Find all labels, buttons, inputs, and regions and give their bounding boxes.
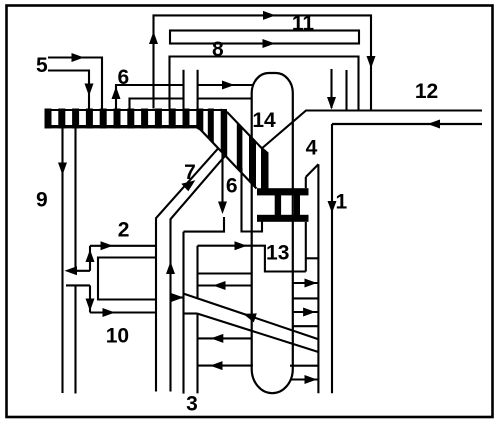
vessel 14 capsule — [252, 73, 293, 393]
stub pipe with down arrow — [330, 69, 332, 108]
duct 6 upper line right part — [198, 84, 253, 86]
zigzag left vertical lower — [196, 314, 198, 394]
loop 8 rectangle — [170, 31, 359, 44]
svg-text:14: 14 — [252, 109, 276, 132]
zigzag line y365.6 with left arrow — [198, 365, 253, 367]
arrow down on pipe 9 — [58, 163, 67, 176]
svg-text:10: 10 — [106, 325, 129, 348]
arrow on line 11 right — [263, 11, 276, 20]
svg-text:3: 3 — [186, 393, 198, 416]
grate band top rail — [45, 109, 228, 111]
grate 13 connector right — [294, 195, 300, 215]
jog lower — [184, 312, 198, 314]
wire 12 lower line — [332, 123, 482, 125]
pipe 1 vertical — [331, 124, 333, 393]
zigzag left vertical upper — [196, 246, 198, 299]
stub pipe open top near 12 — [345, 70, 347, 111]
riser channel right line — [182, 232, 184, 394]
wire duct to stub: line y56.5 — [170, 57, 359, 111]
arrow down on pipe 5 drop — [85, 84, 94, 97]
svg-text:7: 7 — [184, 161, 196, 184]
zigzag line y285.5 with left arrow — [198, 284, 252, 286]
duct 7 right diagonal — [171, 156, 226, 392]
arrow up on riser to 11 — [149, 32, 158, 45]
chute 4 right wall — [317, 164, 319, 393]
arrow right on pipe 5 — [72, 53, 85, 62]
wire 11 top line — [154, 15, 372, 110]
svg-text:9: 9 — [36, 189, 48, 212]
svg-text:13: 13 — [266, 242, 289, 265]
right stub y283 with arrow — [292, 282, 318, 284]
svg-text:12: 12 — [415, 80, 438, 103]
branch riser to line 2 — [89, 246, 91, 271]
duct 6 lower line right part — [198, 97, 252, 99]
chute 4 left wall lower — [305, 222, 307, 272]
funnel mouth below duct 6 — [184, 217, 225, 232]
svg-text:1: 1 — [336, 190, 348, 213]
svg-text:6: 6 — [226, 174, 238, 197]
line 10 with arrow — [90, 311, 155, 313]
right stub y258 — [306, 257, 319, 259]
duct 6 upper line to vessel — [116, 85, 184, 109]
branch lower jog — [66, 284, 90, 286]
svg-text:4: 4 — [306, 137, 318, 160]
stub chimney pair on band — [182, 70, 184, 109]
grate 13 connector left — [275, 195, 281, 215]
under-grate passage left — [242, 168, 263, 232]
arrow left on 12 lower — [428, 120, 441, 129]
branch dropper to line 10 — [89, 285, 91, 312]
branch jog with left arrow — [70, 270, 90, 272]
grate 13 H structure bottom bar — [257, 215, 309, 222]
wire 12 upper line with dome connector — [262, 111, 482, 149]
grate 13 H structure top bar — [257, 188, 309, 195]
pipe 9 right line lower — [74, 285, 76, 393]
grate band slope top rail — [227, 112, 263, 149]
svg-text:2: 2 — [118, 219, 130, 242]
right stub y326.2 — [292, 325, 318, 327]
grate band bars — [45, 109, 269, 190]
svg-text:6: 6 — [118, 66, 130, 89]
svg-text:5: 5 — [36, 54, 48, 77]
line 13 feed with arrow — [198, 246, 306, 272]
duct 7 left diagonal — [156, 148, 218, 391]
zigzag line y338.4 with left arrow — [198, 337, 252, 339]
right stub y365.7 — [290, 365, 318, 367]
grate band bottom rail — [45, 125, 199, 128]
chute 4 left wall upper — [305, 177, 307, 188]
duct 6 lower line to vessel — [130, 99, 184, 109]
grate band bottom rail slope — [198, 127, 257, 189]
duct 6 down line with arrow — [221, 152, 223, 205]
chute 4 mouth diagonal — [306, 164, 319, 177]
arrow on duct 7 — [181, 180, 195, 191]
box 10 heat exchanger — [98, 258, 156, 300]
zigzag line y273.5 — [198, 272, 252, 274]
arrow right on duct 6 — [222, 81, 235, 90]
arrow down on pipe 1 — [328, 201, 337, 213]
pipe 5 upper line — [48, 58, 102, 109]
arrow up on channel — [166, 262, 175, 275]
right stub y312 with arrow — [292, 311, 318, 313]
pipe 5 lower line — [48, 71, 89, 109]
jog arrow into channel — [171, 296, 184, 298]
long diagonal upper with arrow — [184, 294, 319, 340]
pipe 9 left line — [61, 127, 63, 393]
pipe 9 right line upper — [74, 127, 76, 270]
right stub y379.5 with arrow — [291, 378, 319, 380]
right stub y298.4 — [292, 297, 318, 299]
line 2 with arrow — [90, 245, 156, 247]
arrow up on duct 6 riser — [112, 87, 121, 100]
arrow on loop 8 lower line — [263, 39, 276, 48]
arrow down on drop from 11 — [367, 56, 376, 69]
long diagonal lower — [198, 314, 319, 352]
